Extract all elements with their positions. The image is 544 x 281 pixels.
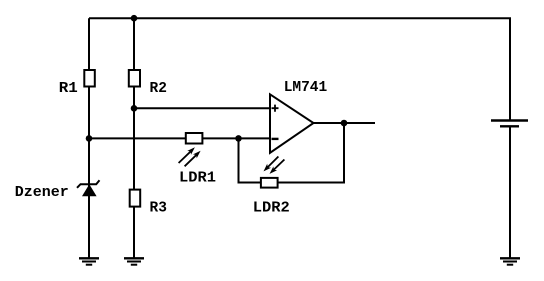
svg-text:LM741: LM741 [284, 80, 328, 96]
svg-text:R1: R1 [59, 81, 78, 97]
svg-text:Dzener: Dzener [15, 185, 69, 201]
svg-text:R2: R2 [150, 81, 167, 97]
svg-text:R3: R3 [150, 201, 167, 217]
svg-text:LDR2: LDR2 [253, 201, 290, 217]
svg-text:LDR1: LDR1 [179, 170, 216, 186]
